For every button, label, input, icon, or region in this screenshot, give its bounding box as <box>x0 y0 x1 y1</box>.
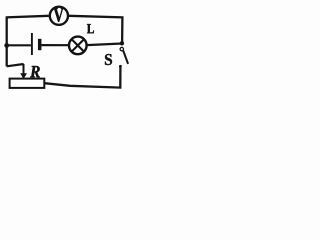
voltmeter circle <box>50 7 68 25</box>
wire bottom-left horizontal <box>7 64 24 66</box>
node junction left <box>4 43 9 48</box>
rheostat slider arrow stem <box>23 64 25 74</box>
lamp X cross <box>72 40 83 51</box>
wire lower contact, bottom horizontal <box>44 66 120 88</box>
wire battery left <box>7 44 31 46</box>
switch pivot circle <box>120 47 123 50</box>
wire battery to lamp <box>42 44 69 46</box>
wire top-left horizontal <box>6 16 49 18</box>
battery long plate <box>31 33 33 55</box>
wire left vertical <box>6 17 8 66</box>
rheostat slider arrowhead <box>20 73 27 79</box>
voltmeter label V <box>54 8 64 22</box>
switch blade <box>123 51 128 64</box>
battery short plate <box>38 39 42 50</box>
label R <box>30 66 40 77</box>
node junction right <box>120 41 124 45</box>
wire lamp to right junction <box>87 44 122 46</box>
label S <box>105 54 112 65</box>
label L <box>87 24 94 33</box>
lamp circle <box>69 37 87 55</box>
resistor R box <box>10 79 45 88</box>
wire top-right horizontal and right vertical <box>69 16 122 43</box>
switch lower contact dot <box>119 65 122 68</box>
